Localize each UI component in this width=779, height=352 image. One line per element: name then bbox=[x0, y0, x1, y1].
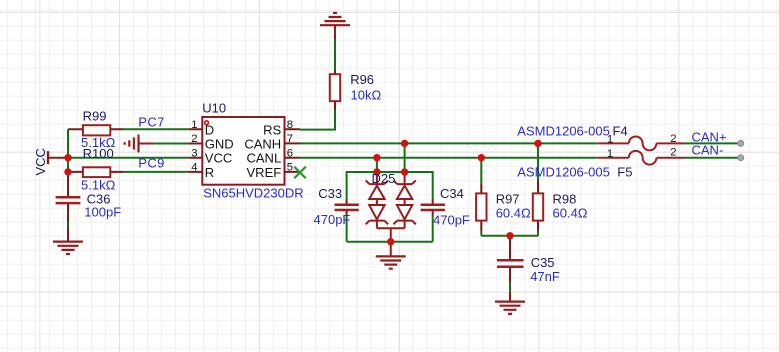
resistor R100 bbox=[68, 167, 124, 177]
junction CANH/D25 bbox=[401, 140, 408, 147]
junction CANL/R97 bbox=[478, 154, 485, 161]
diode D25 right stack bbox=[393, 172, 415, 228]
svg-text:R96: R96 bbox=[350, 72, 374, 87]
svg-text:VCC: VCC bbox=[33, 148, 48, 175]
node CAN+ endpoint bbox=[738, 140, 744, 146]
svg-text:60.4Ω: 60.4Ω bbox=[496, 205, 531, 220]
wire VCC rail vertical bbox=[67, 129, 69, 172]
junction D25 bottom/gnd bbox=[387, 238, 394, 245]
junction CANH/R98 bbox=[534, 140, 541, 147]
op IC U10 box bbox=[202, 117, 284, 185]
wire CANH net bbox=[300, 142, 597, 144]
svg-text:100pF: 100pF bbox=[84, 204, 121, 219]
svg-text:470pF: 470pF bbox=[433, 213, 470, 228]
svg-text:C33: C33 bbox=[318, 186, 342, 201]
junction D25 left top bbox=[373, 168, 380, 175]
svg-text:D: D bbox=[205, 122, 214, 137]
junction VCC/R100 bbox=[64, 168, 71, 175]
wire F4 to CAN+ bbox=[685, 142, 740, 144]
capacitor C33 bbox=[335, 199, 359, 216]
svg-text:7: 7 bbox=[287, 133, 293, 145]
junction VCC/pin3 bbox=[64, 154, 71, 161]
ground (top, flipped) bbox=[320, 13, 350, 39]
wire pin2 net (gnd to U10 GND) bbox=[153, 143, 188, 145]
junction R97R98/C35 bbox=[506, 232, 513, 239]
ground (rotated, at U10 pin 2) bbox=[125, 135, 153, 153]
svg-text:CANH: CANH bbox=[244, 137, 281, 152]
svg-text:R99: R99 bbox=[83, 108, 107, 123]
svg-text:R: R bbox=[205, 165, 214, 180]
svg-text:2: 2 bbox=[670, 133, 676, 145]
node CAN- endpoint bbox=[738, 155, 744, 161]
fuse F5 bbox=[597, 151, 684, 165]
svg-text:F4: F4 bbox=[613, 123, 628, 138]
svg-text:C35: C35 bbox=[531, 255, 555, 270]
svg-text:GND: GND bbox=[205, 137, 234, 152]
svg-text:ASMD1206-005: ASMD1206-005 bbox=[517, 123, 610, 138]
svg-text:2: 2 bbox=[670, 147, 676, 159]
svg-text:F5: F5 bbox=[617, 164, 632, 179]
wire pin3 net (VCC rail to U10 VCC) bbox=[68, 157, 188, 159]
svg-text:10kΩ: 10kΩ bbox=[351, 87, 382, 102]
svg-text:PC9: PC9 bbox=[138, 156, 165, 171]
wire C34 branch verticals bbox=[432, 171, 434, 242]
wire D25/C33/C34 bottom rail bbox=[347, 241, 433, 243]
svg-text:1: 1 bbox=[607, 148, 613, 160]
wire R96 to pin8 RS bbox=[300, 110, 335, 130]
pin stubs U10 right bbox=[285, 129, 301, 172]
svg-text:SN65HVD230DR: SN65HVD230DR bbox=[203, 185, 303, 200]
capacitor C34 bbox=[421, 199, 445, 216]
svg-text:VCC: VCC bbox=[205, 151, 232, 166]
diode D25 left stack bbox=[366, 172, 388, 228]
wire CANL drop to D25 left bbox=[376, 158, 378, 172]
pin 1 indicator circle bbox=[205, 121, 209, 125]
wire C35 to ground segment bbox=[509, 283, 511, 292]
svg-text:6: 6 bbox=[287, 147, 293, 159]
fuse F4 bbox=[597, 137, 684, 151]
svg-text:2: 2 bbox=[191, 133, 197, 145]
svg-text:U10: U10 bbox=[202, 101, 226, 116]
wire R97 bottom segment bbox=[480, 231, 482, 236]
wire D25/C33/C34 top rail bbox=[347, 171, 433, 173]
resistor R97 bbox=[476, 184, 486, 231]
wire pin1 net (R99 to U10 D) bbox=[124, 128, 189, 130]
junction D25 right top bbox=[401, 168, 408, 175]
svg-text:CAN-: CAN- bbox=[692, 142, 724, 157]
ground (below C35) bbox=[495, 302, 525, 314]
wire top ground to R96 bbox=[334, 39, 336, 71]
svg-text:RS: RS bbox=[263, 122, 281, 137]
junction CANL/D25 bbox=[373, 154, 380, 161]
wire CANH drop to R98 bbox=[537, 143, 539, 180]
svg-text:VREF: VREF bbox=[247, 165, 282, 180]
ground (below D25) bbox=[376, 242, 406, 269]
capacitor C35 bbox=[497, 236, 524, 301]
svg-text:CANL: CANL bbox=[247, 151, 282, 166]
wire CANL drop to R97 bbox=[480, 158, 482, 184]
svg-text:60.4Ω: 60.4Ω bbox=[553, 205, 588, 220]
no-connect X on pin 5 bbox=[294, 167, 306, 179]
svg-text:1: 1 bbox=[607, 134, 613, 146]
wire F5 to CAN- bbox=[685, 157, 740, 159]
pin stubs U10 left bbox=[188, 129, 202, 172]
D25 common connector bbox=[377, 228, 405, 241]
resistor R98 bbox=[533, 181, 543, 231]
svg-text:5: 5 bbox=[287, 162, 293, 174]
resistor R96 bbox=[330, 71, 340, 111]
svg-text:1: 1 bbox=[191, 119, 197, 131]
svg-text:4: 4 bbox=[191, 162, 197, 174]
svg-text:PC7: PC7 bbox=[138, 115, 165, 130]
svg-text:47nF: 47nF bbox=[530, 269, 560, 284]
wire pin4 net (R100 to U10 R) bbox=[124, 171, 189, 173]
svg-text:C34: C34 bbox=[440, 186, 464, 201]
wire R97-R98 bottom rail bbox=[481, 235, 538, 237]
resistor R99 bbox=[68, 125, 124, 135]
capacitor C36 bbox=[56, 172, 81, 242]
wire CANH drop to D25 right bbox=[404, 143, 406, 172]
svg-text:R100: R100 bbox=[83, 146, 114, 161]
wire C36 to ground segment bbox=[67, 222, 69, 227]
svg-text:470pF: 470pF bbox=[314, 212, 351, 227]
svg-text:ASMD1206-005: ASMD1206-005 bbox=[517, 164, 610, 179]
svg-text:8: 8 bbox=[287, 119, 293, 131]
svg-text:3: 3 bbox=[191, 147, 197, 159]
wire CANL net bbox=[300, 157, 597, 159]
svg-text:5.1kΩ: 5.1kΩ bbox=[81, 178, 116, 193]
vcc power symbol bbox=[48, 151, 68, 164]
wire R98 bottom segment bbox=[537, 231, 539, 236]
wire C33 branch verticals bbox=[346, 171, 348, 242]
svg-text:D25: D25 bbox=[372, 171, 396, 186]
ground (left, below C36) bbox=[53, 242, 83, 254]
